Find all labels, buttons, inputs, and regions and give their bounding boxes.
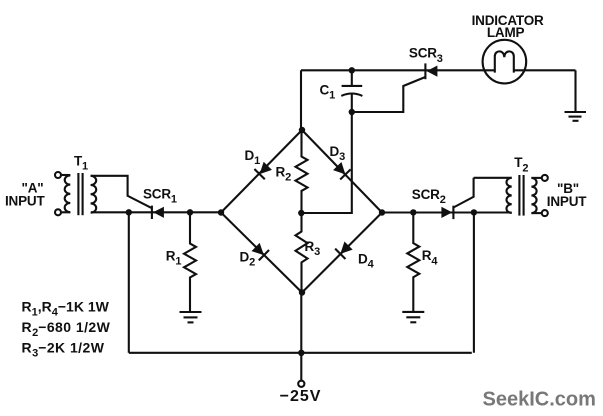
svg-text:INPUT: INPUT xyxy=(5,194,45,209)
resistor R2 xyxy=(276,130,308,213)
capacitor C1 xyxy=(320,70,363,112)
SCR3 xyxy=(409,46,443,80)
wire left vertical xyxy=(128,212,130,352)
indicator lamp xyxy=(472,13,544,83)
notes text xyxy=(22,299,111,360)
resistor R1 xyxy=(166,212,196,312)
transformer T1 xyxy=(55,153,96,215)
svg-text:SeekIC.com: SeekIC.com xyxy=(483,389,596,411)
SCR1 xyxy=(143,186,177,219)
bridge diamond wires xyxy=(221,130,382,293)
transformer T2 xyxy=(474,155,548,216)
wire right main xyxy=(382,211,512,213)
ground (lamp) xyxy=(565,112,587,121)
wire top rail xyxy=(513,69,575,71)
svg-text:−25V: −25V xyxy=(280,388,322,405)
svg-text:INPUT: INPUT xyxy=(547,194,587,209)
SCR2 xyxy=(412,178,474,219)
diode D1 xyxy=(254,161,273,180)
wire lamp ground drop xyxy=(574,70,576,112)
ground (R4) xyxy=(402,312,424,322)
wire left main xyxy=(91,211,221,213)
wire C1 bottom to bridge center xyxy=(301,112,352,213)
diode D4 xyxy=(335,240,354,259)
diode D3 xyxy=(332,161,351,180)
-25V terminal xyxy=(280,353,322,405)
wire bottom rail xyxy=(129,352,472,354)
resistor R3 xyxy=(296,213,321,293)
wire top-left drop to bridge top xyxy=(300,70,302,130)
wire bridge bottom drop xyxy=(300,293,302,353)
svg-text:LAMP: LAMP xyxy=(487,25,525,40)
wire right vertical xyxy=(473,212,475,352)
diode D2 xyxy=(250,242,269,261)
ground (R1) xyxy=(180,312,202,322)
wire T1 secondary top to SCR1 gate xyxy=(91,176,152,208)
resistor R4 xyxy=(407,212,438,312)
wire SCR3 gate path xyxy=(352,77,426,112)
